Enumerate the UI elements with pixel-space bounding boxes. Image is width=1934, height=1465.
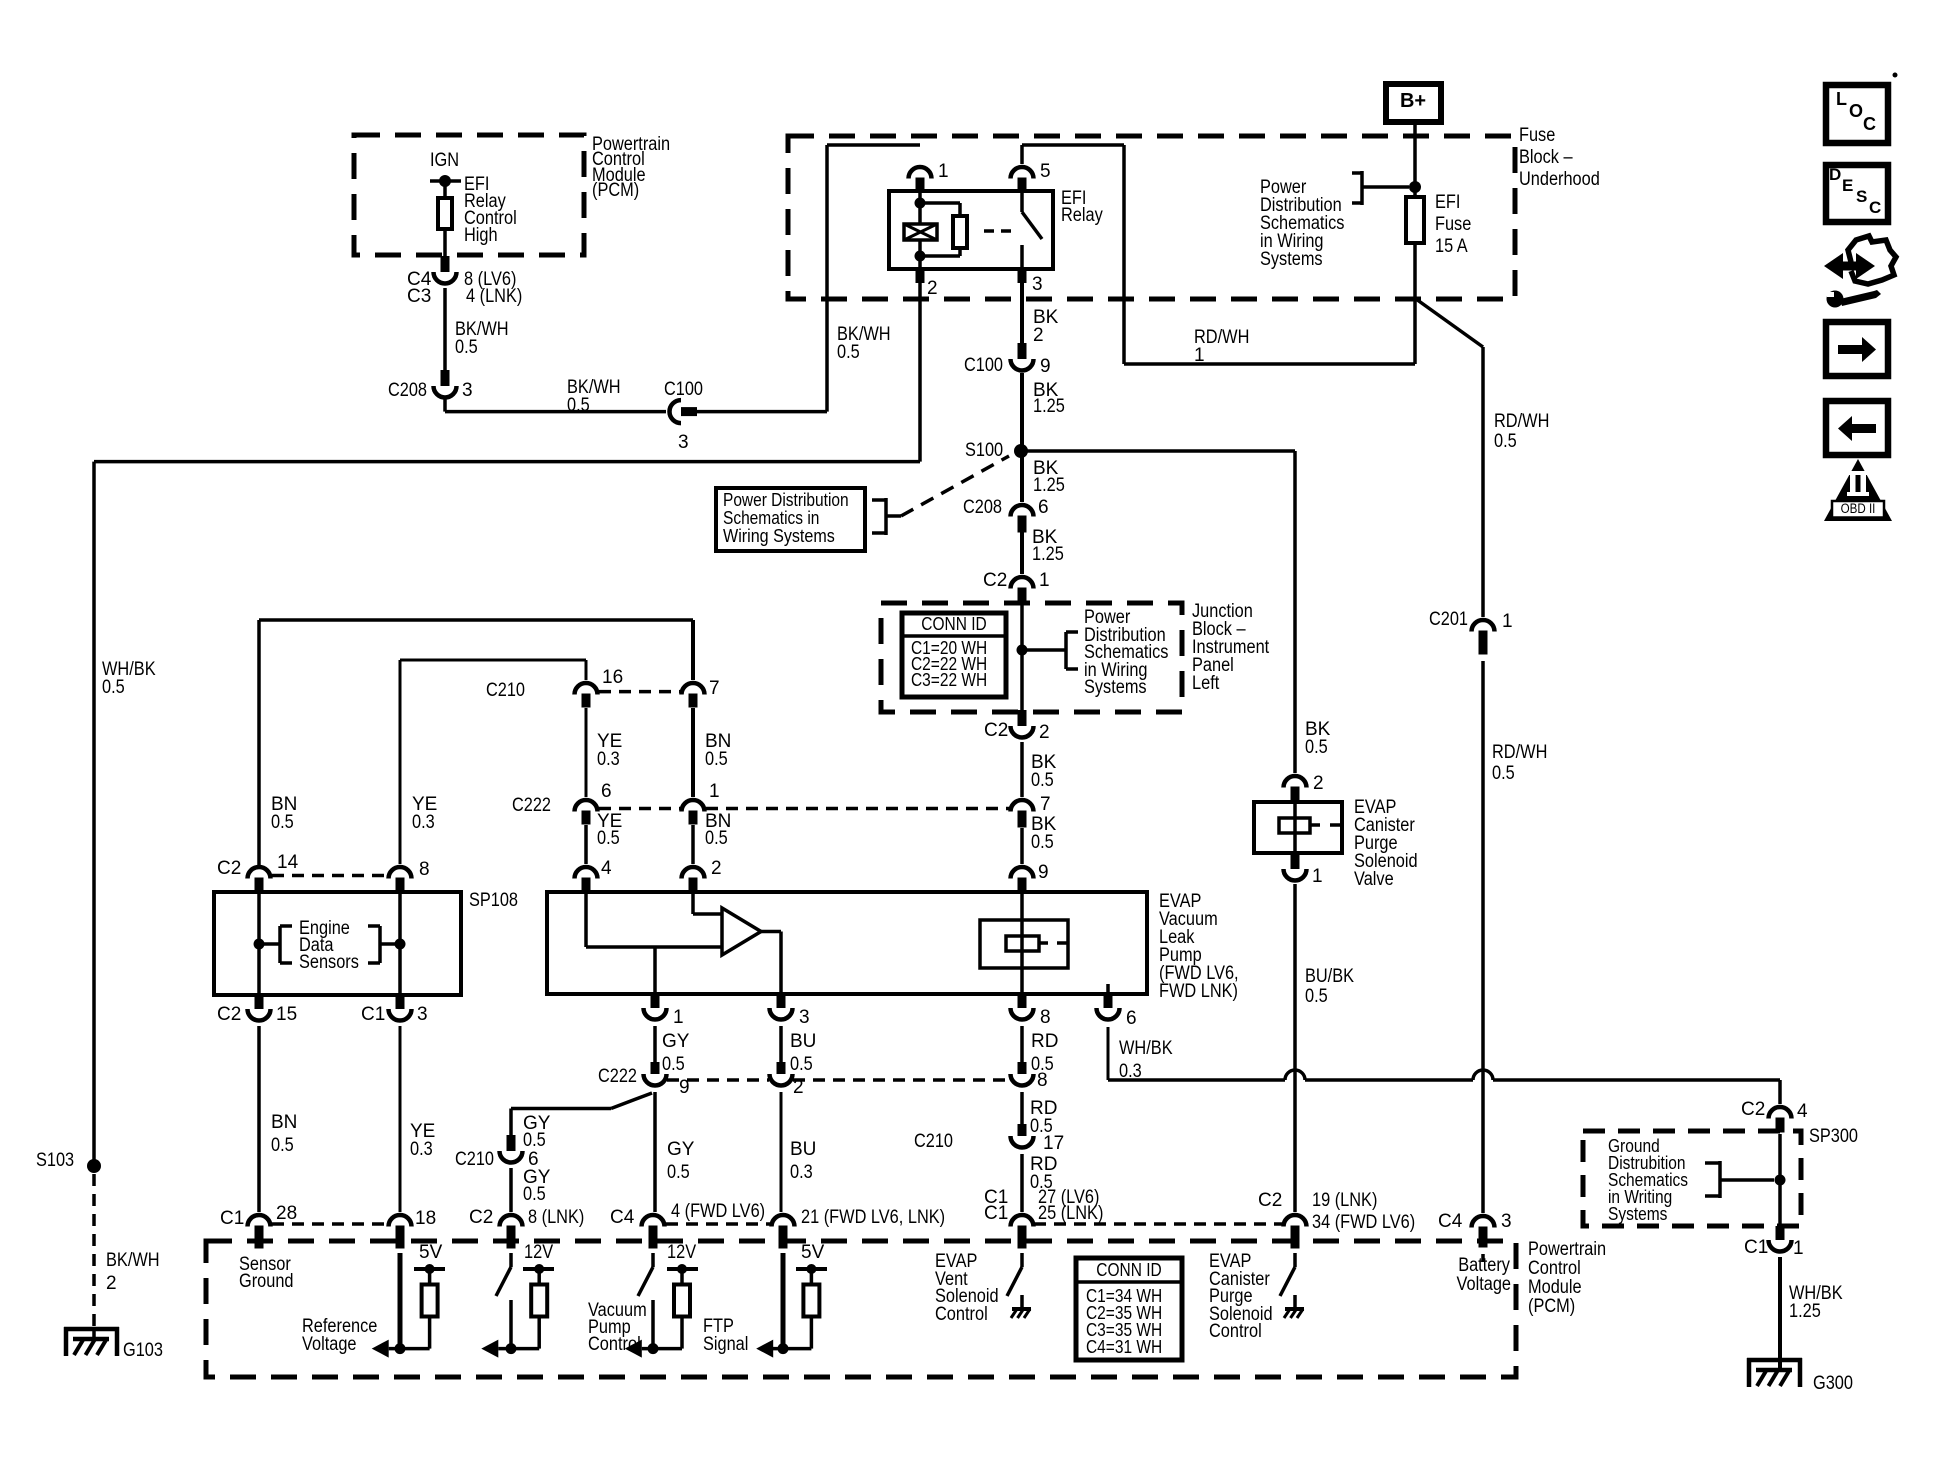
svg-text:8 (LNK): 8 (LNK) xyxy=(528,1207,584,1228)
connector C210 pin 16 xyxy=(575,683,598,695)
wire pump pin3 to C222-2 (BU 0.5) xyxy=(779,1026,783,1062)
svg-text:C4: C4 xyxy=(610,1207,635,1228)
wire switch to node (C2-8) xyxy=(509,1300,513,1349)
svg-text:C4: C4 xyxy=(1438,1211,1463,1232)
dashed link C222 9-2 xyxy=(667,1078,769,1082)
svg-text:Wiring Systems: Wiring Systems xyxy=(723,526,835,546)
resistor EFI Relay Control High xyxy=(438,198,452,229)
svg-text:S103: S103 xyxy=(36,1150,74,1171)
svg-text:C: C xyxy=(1863,114,1876,134)
svg-text:Power Distribution: Power Distribution xyxy=(723,490,849,510)
svg-text:1: 1 xyxy=(1194,345,1205,366)
svg-text:4: 4 xyxy=(601,858,612,879)
svg-text:0.3: 0.3 xyxy=(410,1139,433,1160)
svg-text:GY: GY xyxy=(662,1031,690,1052)
wire pump pin 6 inner stub xyxy=(1106,984,1110,994)
wire pump pin6 to bottom bus (WH/BK 0.3) xyxy=(1107,1027,1110,1080)
svg-text:FWD LNK): FWD LNK) xyxy=(1159,981,1238,1002)
reference bracket (S100 box) xyxy=(872,498,886,502)
svg-text:C2: C2 xyxy=(984,720,1008,741)
connector 1 (C222 row) xyxy=(682,800,705,812)
component box EVAP Canister Purge Solenoid Valve xyxy=(1254,802,1342,853)
wire C210-17 down (RD 0.5) xyxy=(1020,1154,1024,1212)
bracket engine data sensors right xyxy=(380,942,400,946)
wire YE through SP108 xyxy=(398,892,402,995)
ground G300 xyxy=(1747,1358,1802,1363)
wire top loop BN column xyxy=(257,620,261,866)
svg-text:B+: B+ xyxy=(1400,90,1426,112)
connector C210 pin 6 xyxy=(507,1135,516,1151)
connector C4/C3 pin 8(LV6)/4(LNK) xyxy=(441,256,450,272)
svg-text:1: 1 xyxy=(1039,570,1050,591)
dashed link C222-1 to 7 (BK column) xyxy=(706,807,1010,811)
wire through SP300 box xyxy=(1778,1134,1782,1226)
connector pin 21 (FWD LV6, LNK) xyxy=(772,1215,795,1227)
connector C4 pin 4 (FWD LV6) xyxy=(642,1215,665,1227)
svg-text:C208: C208 xyxy=(388,380,427,401)
connector C1 pin 28 xyxy=(248,1215,271,1227)
svg-text:C222: C222 xyxy=(512,795,551,816)
svg-text:7: 7 xyxy=(1040,794,1051,815)
wire B+ to fuse xyxy=(1413,122,1417,197)
reference bracket to fuse xyxy=(1352,171,1362,175)
wire C4 to C208 (BK/WH 0.5) xyxy=(443,288,447,370)
relay box EFI Relay xyxy=(889,191,1053,269)
svg-text:2: 2 xyxy=(1039,722,1050,743)
wire relay pin3 down (BK 2) xyxy=(1020,283,1024,343)
connector C2 pin 1 (junction block) xyxy=(1011,577,1034,588)
svg-text:C2: C2 xyxy=(217,1004,241,1025)
wire bus right segment to SP300 xyxy=(1493,1078,1780,1082)
svg-text:0.5: 0.5 xyxy=(662,1054,685,1075)
wire relay pin2 down (BK/WH 0.5) xyxy=(918,283,922,462)
wire node (C4-4) xyxy=(642,1347,682,1351)
wire C201 to battery voltage (RD/WH 0.5) xyxy=(1481,661,1485,1213)
wire C222-9 diagonal to C210-6 xyxy=(611,1093,652,1109)
reference bracket SP300 xyxy=(1705,1161,1720,1165)
svg-text:3: 3 xyxy=(799,1007,810,1028)
svg-text:0.3: 0.3 xyxy=(597,749,620,770)
svg-text:1.25: 1.25 xyxy=(1032,544,1064,565)
connector C100 pin 9 xyxy=(1018,343,1027,359)
svg-text:3: 3 xyxy=(1501,1211,1512,1232)
connector C210 pin 17 xyxy=(1018,1124,1027,1136)
wire C100 to relay pin 1 riser xyxy=(697,410,827,414)
connector C2 pin 2 xyxy=(1018,710,1027,726)
svg-text:OBD II: OBD II xyxy=(1841,501,1876,516)
svg-text:C100: C100 xyxy=(664,379,703,400)
connector C1 pin 3 xyxy=(396,995,405,1009)
icon back arrow box xyxy=(1826,401,1888,455)
connector C208 pin 6 xyxy=(1011,505,1034,517)
junction dot above fuse xyxy=(1409,181,1421,193)
svg-text:C2: C2 xyxy=(217,858,241,879)
wire C222-2 down (BU 0.3) xyxy=(780,1092,783,1212)
wire long horizontal to left edge xyxy=(94,460,920,464)
icon OBD II triangle xyxy=(1824,459,1892,521)
svg-text:C2: C2 xyxy=(1258,1190,1282,1211)
svg-text:0.3: 0.3 xyxy=(412,812,435,833)
svg-text:12V: 12V xyxy=(667,1242,696,1263)
connector C1 pin 18 xyxy=(389,1215,412,1227)
svg-text:0.5: 0.5 xyxy=(1305,986,1328,1007)
wire C2-8 to switch xyxy=(509,1253,513,1267)
wire C2-2 to conn 7 (BK 0.5) xyxy=(1020,742,1024,797)
svg-text:C1: C1 xyxy=(361,1004,385,1025)
resistor 5V pullup (FTP) xyxy=(803,1285,819,1317)
fuse EFI Fuse 15 A xyxy=(1406,197,1424,243)
connector C222 pin 9 xyxy=(651,1062,660,1074)
relay pin 3 stub xyxy=(1018,269,1027,283)
connector C201 pin 1 xyxy=(1472,620,1495,632)
wire C210-6 down (GY 0.5) xyxy=(509,1168,513,1212)
connector 9 (pump) xyxy=(1011,867,1034,879)
component box EVAP Vacuum Leak Pump xyxy=(547,892,1147,994)
svg-text:RD/WH: RD/WH xyxy=(1494,411,1549,432)
svg-text:2: 2 xyxy=(1313,773,1324,794)
svg-text:C1: C1 xyxy=(1744,1237,1768,1258)
connector C2 pin 15 xyxy=(255,995,264,1009)
connector pump pin 8 xyxy=(1018,994,1027,1008)
junction dot SP108 left xyxy=(254,939,265,950)
icon DESC box xyxy=(1826,165,1888,222)
svg-text:C201: C201 xyxy=(1429,609,1468,630)
wire relay coil bottom xyxy=(918,240,922,269)
svg-text:25 (LNK): 25 (LNK) xyxy=(1038,1203,1103,1224)
svg-text:Ground: Ground xyxy=(239,1271,294,1292)
dashed link 4-21 xyxy=(666,1222,770,1226)
svg-text:EFI: EFI xyxy=(1435,192,1460,213)
connector pump pin 3 xyxy=(777,994,786,1008)
svg-text:BU: BU xyxy=(790,1139,816,1160)
svg-text:C3: C3 xyxy=(407,286,431,307)
wire relay pin5 to fuse node (RD/WH 1) xyxy=(1020,145,1024,164)
svg-text:C208: C208 xyxy=(963,497,1002,518)
connector purge valve pin 1 xyxy=(1291,853,1300,869)
wire amp lower input to pin 1 xyxy=(653,947,657,994)
svg-text:Powertrain: Powertrain xyxy=(1528,1239,1606,1260)
node IGN tee bar xyxy=(430,179,461,183)
wire pin-21 feeder (FTP) xyxy=(781,1253,786,1349)
svg-text:6: 6 xyxy=(601,781,612,802)
svg-text:1: 1 xyxy=(1312,866,1323,887)
wire C1-18 feeder (reference voltage) xyxy=(398,1253,403,1349)
svg-text:Signal: Signal xyxy=(703,1334,748,1355)
wire C208-6 to C2-1 (BK 1.25) xyxy=(1020,531,1024,574)
wire bus mid segment xyxy=(1305,1078,1473,1082)
svg-text:C100: C100 xyxy=(964,355,1003,376)
svg-text:28: 28 xyxy=(276,1203,297,1224)
module box Powertrain Control Module (PCM) bottom (dashed) xyxy=(206,1241,1516,1377)
svg-text:Control: Control xyxy=(1209,1321,1262,1342)
svg-text:1: 1 xyxy=(1502,611,1513,632)
svg-text:C4=31 WH: C4=31 WH xyxy=(1086,1337,1162,1357)
svg-text:1.25: 1.25 xyxy=(1033,475,1065,496)
svg-text:17: 17 xyxy=(1043,1133,1064,1154)
icon vehicle outline xyxy=(1848,236,1896,284)
connector C222 pin 6 xyxy=(575,800,598,812)
connector C2 pin 19/34 xyxy=(1284,1215,1307,1227)
ground (purge solenoid driver) xyxy=(1293,1295,1297,1309)
svg-text:0.5: 0.5 xyxy=(523,1184,546,1205)
ground (vent solenoid driver) xyxy=(1020,1295,1024,1309)
switch purge solenoid blade xyxy=(1280,1267,1295,1296)
bus hop over purge wire xyxy=(1285,1070,1305,1080)
svg-text:0.5: 0.5 xyxy=(790,1054,813,1075)
table CONN ID (junction block) xyxy=(902,613,1006,697)
svg-text:18: 18 xyxy=(415,1208,436,1229)
wire C1-1 to G300 (WH/BK 1.25) xyxy=(1778,1257,1782,1360)
svg-text:0.3: 0.3 xyxy=(1119,1061,1142,1082)
arrow (FTP signal) xyxy=(756,1340,773,1358)
svg-text:1.25: 1.25 xyxy=(1789,1301,1821,1322)
relay pin 2 stub xyxy=(916,269,925,283)
wire through junction block xyxy=(1020,604,1024,710)
wire C1-25 to switch xyxy=(1020,1253,1024,1267)
svg-text:SP108: SP108 xyxy=(469,890,518,911)
svg-text:O: O xyxy=(1849,101,1863,121)
svg-text:8: 8 xyxy=(419,859,430,880)
icon forward arrow xyxy=(1838,345,1862,354)
svg-text:IGN: IGN xyxy=(430,150,459,171)
svg-text:Underhood: Underhood xyxy=(1519,169,1600,190)
svg-text:16: 16 xyxy=(602,667,623,688)
svg-text:Voltage: Voltage xyxy=(302,1334,357,1355)
relay coil (bowtie) xyxy=(904,224,937,240)
svg-text:6: 6 xyxy=(1126,1008,1137,1029)
svg-text:9: 9 xyxy=(1038,862,1049,883)
svg-text:0.5: 0.5 xyxy=(455,337,478,358)
svg-text:5: 5 xyxy=(1040,161,1051,182)
resistor 12V pullup (C2-8) xyxy=(531,1285,547,1317)
svg-text:0.5: 0.5 xyxy=(1494,431,1517,452)
dashed link 28-18 xyxy=(272,1222,388,1226)
svg-text:High: High xyxy=(464,225,498,246)
connector C222 pin 2 xyxy=(777,1062,786,1074)
ground G103 xyxy=(64,1327,119,1332)
svg-text:4 (LNK): 4 (LNK) xyxy=(466,286,522,307)
wire C2-15 to C1-28 (BN 0.5) xyxy=(257,1026,261,1212)
svg-text:C210: C210 xyxy=(914,1131,953,1152)
svg-text:C210: C210 xyxy=(455,1149,494,1170)
wire S100 down to purge valve (BK 0.5) xyxy=(1293,451,1297,773)
svg-text:S: S xyxy=(1856,187,1867,206)
svg-text:CONN ID: CONN ID xyxy=(1096,1260,1161,1280)
svg-text:0.5: 0.5 xyxy=(705,749,728,770)
wire conn7 to conn9 (BK 0.5) xyxy=(1020,828,1024,864)
dashed link C2-14 to 8 xyxy=(272,874,387,878)
wire C100-9 to S100 (BK 1.25) xyxy=(1020,373,1024,502)
svg-text:3: 3 xyxy=(678,432,689,453)
svg-text:BN: BN xyxy=(271,1112,297,1133)
svg-text:0.5: 0.5 xyxy=(1305,737,1328,758)
wire BN through SP108 xyxy=(257,892,261,995)
svg-text:0.5: 0.5 xyxy=(271,812,294,833)
svg-text:2: 2 xyxy=(927,278,938,299)
connector C1 pin 1 (SP300) xyxy=(1776,1226,1785,1240)
junction dot relay coil bottom xyxy=(915,251,926,262)
resistor 12V pullup (C4-4) xyxy=(674,1285,690,1317)
relay switch lower contact xyxy=(1020,245,1024,269)
svg-text:RD/WH: RD/WH xyxy=(1492,742,1547,763)
connector relay pin 1 xyxy=(909,167,932,179)
splice box SP108 xyxy=(214,892,461,995)
wire C222-6 to pump pin 4 (YE 0.5) xyxy=(584,825,588,864)
connector pump pin 4 xyxy=(575,867,598,879)
svg-text:C210: C210 xyxy=(486,680,525,701)
svg-text:(PCM): (PCM) xyxy=(1528,1296,1575,1317)
svg-text:12V: 12V xyxy=(524,1242,553,1263)
junction dot (FTP node) xyxy=(778,1343,789,1354)
connector pump pin 1 xyxy=(651,994,660,1008)
svg-text:Valve: Valve xyxy=(1354,869,1394,890)
icon back arrow xyxy=(1852,424,1876,433)
svg-text:C222: C222 xyxy=(598,1066,637,1087)
wire C1-3 to C1-18 (YE 0.3) xyxy=(399,1026,402,1212)
node S100 junction dot xyxy=(1014,444,1028,458)
node IGN junction dot xyxy=(439,175,451,187)
svg-text:C1: C1 xyxy=(984,1203,1008,1224)
dashed link C210-16 to 7 xyxy=(599,690,680,694)
dashed leader to S100 xyxy=(901,456,1009,516)
svg-text:Systems: Systems xyxy=(1608,1204,1667,1224)
svg-text:7: 7 xyxy=(709,678,720,699)
wire fuse to node 364 xyxy=(1413,243,1417,364)
wire C4-3 stub (battery voltage) xyxy=(1481,1254,1485,1262)
module box Ground Distribution (dashed) xyxy=(1583,1131,1801,1226)
motor symbol (pump) xyxy=(1020,892,1024,994)
wire S103 to G103 (dashed BK/WH 2) xyxy=(92,1174,96,1329)
svg-text:Relay: Relay xyxy=(1061,205,1103,226)
connector C2 pin 4 (SP300) xyxy=(1769,1107,1792,1119)
reference bracket (junction block) xyxy=(1022,648,1066,652)
svg-text:C2: C2 xyxy=(983,570,1007,591)
junction dot SP300 xyxy=(1775,1175,1786,1186)
svg-text:3: 3 xyxy=(462,380,473,401)
svg-text:1.25: 1.25 xyxy=(1033,396,1065,417)
svg-text:0.5: 0.5 xyxy=(271,1135,294,1156)
svg-text:4: 4 xyxy=(1797,1101,1808,1122)
svg-text:Systems: Systems xyxy=(1260,249,1323,270)
svg-text:Control: Control xyxy=(1528,1258,1581,1279)
svg-text:0.5: 0.5 xyxy=(567,395,590,416)
svg-text:0.5: 0.5 xyxy=(667,1162,690,1183)
svg-text:1: 1 xyxy=(938,161,949,182)
relay switch fixed contact from pin 5 xyxy=(1020,191,1024,212)
svg-text:3: 3 xyxy=(1032,274,1043,295)
svg-text:34 (FWD LV6): 34 (FWD LV6) xyxy=(1312,1212,1415,1233)
wire FTP node xyxy=(773,1347,811,1351)
svg-text:BU: BU xyxy=(790,1031,816,1052)
svg-text:15: 15 xyxy=(276,1004,297,1025)
switch vent solenoid blade xyxy=(1007,1267,1022,1296)
svg-text:C2: C2 xyxy=(469,1207,493,1228)
svg-text:C1: C1 xyxy=(220,1208,244,1229)
relay coil-switch link (dashed) xyxy=(984,229,1014,233)
svg-text:8: 8 xyxy=(1037,1070,1048,1091)
wire C4-4 to switch xyxy=(651,1253,655,1267)
junction dot (C2-8 node) xyxy=(506,1343,517,1354)
svg-text:GY: GY xyxy=(667,1139,695,1160)
wire C222-1 to pump pin 2 (BN 0.5) xyxy=(691,825,695,864)
icon small dot xyxy=(1893,73,1898,78)
svg-text:0.5: 0.5 xyxy=(1492,763,1515,784)
svg-text:6: 6 xyxy=(1038,497,1049,518)
svg-text:0.5: 0.5 xyxy=(523,1130,546,1151)
svg-text:CONN ID: CONN ID xyxy=(921,614,986,634)
connector C100 pin 3 (inline horizontal) xyxy=(670,400,682,423)
bracket engine data sensors left xyxy=(259,942,280,946)
connector purge valve pin 2 xyxy=(1284,776,1307,787)
connector 7 (BK column) xyxy=(1011,800,1034,812)
wire S100 to purge valve column xyxy=(1021,449,1295,453)
svg-text:21 (FWD LV6, LNK): 21 (FWD LV6, LNK) xyxy=(801,1207,945,1228)
wire purge valve to C2-34 (BU/BK 0.5) xyxy=(1293,884,1297,1212)
svg-text:BU/BK: BU/BK xyxy=(1305,966,1354,987)
svg-text:G300: G300 xyxy=(1813,1373,1853,1394)
solenoid coil (purge valve) xyxy=(1293,802,1297,853)
reference box Power Distribution Schematics in Wiring Systems (solid) xyxy=(716,488,865,551)
svg-text:0.5: 0.5 xyxy=(597,828,620,849)
dashed link C222 2-8 xyxy=(793,1078,1010,1082)
wire switch to node (C4-4) xyxy=(651,1300,655,1349)
svg-text:RD: RD xyxy=(1031,1031,1058,1052)
wire amp output to pin 3 xyxy=(761,930,781,934)
svg-text:15 A: 15 A xyxy=(1435,236,1468,257)
svg-text:1: 1 xyxy=(673,1007,684,1028)
svg-text:1: 1 xyxy=(709,781,720,802)
wire C2-34 to switch xyxy=(1293,1253,1297,1267)
node S103 junction dot xyxy=(87,1159,101,1173)
svg-text:14: 14 xyxy=(277,852,299,873)
svg-text:0.3: 0.3 xyxy=(790,1162,813,1183)
wire C222-8 to C210-17 (RD 0.5) xyxy=(1020,1092,1024,1124)
svg-text:WH/BK: WH/BK xyxy=(1119,1038,1173,1059)
connector C4 pin 3 (battery voltage) xyxy=(1472,1216,1495,1228)
module box Powertrain Control Module (PCM) top-left (dashed) xyxy=(354,135,584,255)
svg-text:Fuse: Fuse xyxy=(1519,125,1555,146)
wire pump pin8 to C222-8 (RD 0.5) xyxy=(1020,1026,1024,1062)
svg-text:9: 9 xyxy=(1040,356,1051,377)
svg-text:Voltage: Voltage xyxy=(1457,1274,1512,1295)
module box Fuse Block - Underhood (dashed) xyxy=(788,136,1515,299)
svg-text:S100: S100 xyxy=(965,440,1003,461)
icon OBD II glyph xyxy=(1847,471,1869,475)
power symbol B+ box xyxy=(1386,84,1441,122)
svg-text:3: 3 xyxy=(417,1004,428,1025)
svg-text:Module: Module xyxy=(1528,1277,1582,1298)
svg-text:Block –: Block – xyxy=(1519,147,1573,168)
svg-text:2: 2 xyxy=(106,1273,117,1294)
connector C222 pin 8 xyxy=(1018,1062,1027,1074)
svg-text:8: 8 xyxy=(1040,1007,1051,1028)
svg-text:D: D xyxy=(1829,165,1841,184)
connector C208 pin 3 xyxy=(441,370,450,386)
svg-text:0.5: 0.5 xyxy=(837,342,860,363)
svg-text:1: 1 xyxy=(1793,1238,1804,1259)
wire fuse block to C201 (diagonal RD/WH 0.5) xyxy=(1416,299,1483,347)
svg-text:Systems: Systems xyxy=(1084,677,1147,698)
svg-text:2: 2 xyxy=(1033,325,1044,346)
icon LOC box xyxy=(1826,85,1888,143)
connector C1 pin 27/25 xyxy=(1011,1215,1034,1227)
dashed link C222-6 to 1 xyxy=(599,807,680,811)
junction dot (junction block) xyxy=(1017,645,1028,656)
icon double arrow xyxy=(1824,253,1875,279)
switch C2-8 blade xyxy=(496,1267,511,1296)
wire C210-16 to C222-6 (YE 0.3) xyxy=(585,708,588,797)
switch C4-4 blade xyxy=(638,1267,653,1296)
